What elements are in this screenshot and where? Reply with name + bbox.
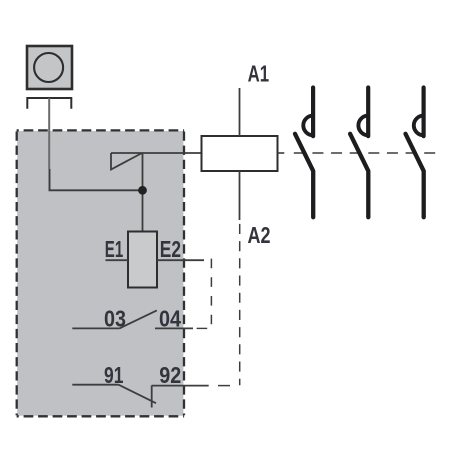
E2 to 04 dashed link vertical — [210, 259, 212, 325]
NO contact 03-04 left wire — [72, 327, 119, 329]
main contact pole 3 — [406, 88, 424, 218]
svg-text:A2: A2 — [248, 222, 271, 248]
coil A1/A2 rectangle — [202, 136, 278, 171]
pushbutton head S1 — [27, 46, 72, 89]
enclosure dashed border top — [17, 129, 185, 131]
main contact pole 2 — [350, 88, 368, 218]
NC contact stop bar — [151, 385, 153, 407]
pushbutton mounting bracket — [27, 98, 71, 109]
E1 wire — [106, 259, 129, 261]
undervoltage coil E1/E2 rectangle — [128, 232, 157, 288]
svg-text:92: 92 — [159, 362, 181, 388]
A2 terminal wire — [239, 171, 241, 220]
enclosure dashed border right — [183, 132, 185, 416]
flag trip lever wire to coil A1 box — [111, 152, 202, 154]
E2 to 04 dashed link horizontal — [197, 327, 208, 329]
NC contact 91-92 left wire — [72, 384, 118, 386]
A1 terminal wire — [239, 88, 241, 136]
NC contact blade — [119, 385, 157, 404]
pushbutton circle — [34, 53, 63, 82]
NO contact right wire — [155, 327, 193, 329]
NC contact right wire — [152, 385, 209, 387]
wire from button (upper gray part) — [48, 98, 50, 169]
svg-text:E1: E1 — [105, 236, 124, 262]
NO contact blade — [120, 310, 157, 328]
wire from button down and right — [50, 169, 143, 190]
A2 dashed continuation down — [239, 224, 241, 385]
enclosure gray box fill — [17, 131, 183, 416]
mechanical linkage dashed line to main contacts — [278, 152, 285, 154]
enclosure dashed border bottom — [17, 415, 185, 417]
flag triangle — [111, 153, 142, 170]
wire vertical from flag through junction to coil E — [142, 153, 144, 232]
svg-text:A1: A1 — [248, 60, 270, 86]
main contact pole 1 — [295, 88, 313, 218]
E2 wire — [157, 259, 204, 261]
enclosure dashed border left — [16, 132, 18, 416]
junction dot — [138, 186, 147, 195]
svg-text:E2: E2 — [160, 236, 181, 262]
92 to A2 dashed link — [218, 385, 230, 387]
svg-text:04: 04 — [159, 305, 181, 331]
